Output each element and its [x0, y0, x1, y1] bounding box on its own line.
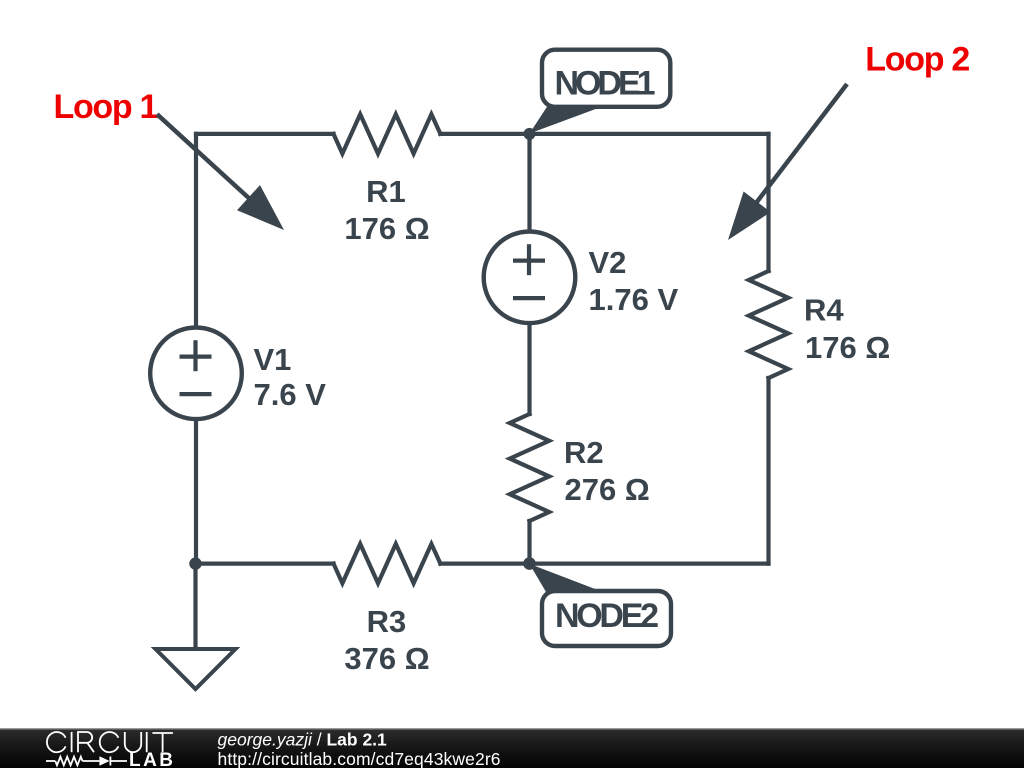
svg-text:R2: R2	[564, 435, 604, 470]
svg-text:7.6 V: 7.6 V	[254, 377, 327, 412]
svg-text:R4: R4	[804, 293, 844, 328]
svg-text:176 Ω: 176 Ω	[344, 211, 429, 246]
svg-text:george.yazji / Lab 2.1: george.yazji / Lab 2.1	[218, 730, 388, 750]
svg-text:R3: R3	[367, 604, 407, 639]
svg-text:376 Ω: 376 Ω	[344, 641, 429, 676]
svg-text:Loop 1: Loop 1	[54, 88, 158, 126]
svg-text:Loop 2: Loop 2	[865, 40, 969, 78]
svg-text:NODE2: NODE2	[555, 597, 659, 635]
svg-text:1.76 V: 1.76 V	[589, 282, 679, 317]
svg-text:V2: V2	[589, 245, 627, 280]
svg-text:176 Ω: 176 Ω	[805, 330, 890, 365]
svg-text:V1: V1	[254, 342, 292, 377]
svg-text:http://circuitlab.com/cd7eq43k: http://circuitlab.com/cd7eq43kwe2r6	[218, 749, 501, 768]
svg-text:LAB: LAB	[129, 750, 173, 768]
svg-text:276 Ω: 276 Ω	[565, 472, 650, 507]
svg-text:NODE1: NODE1	[555, 65, 656, 103]
svg-text:R1: R1	[366, 174, 406, 209]
